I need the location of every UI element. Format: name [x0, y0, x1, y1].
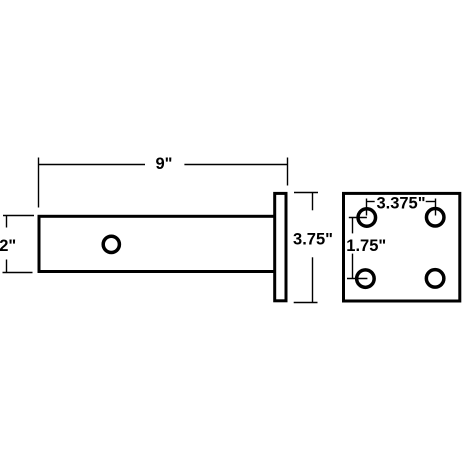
tick right (3.375") [435, 199, 437, 216]
svg-text:9": 9" [156, 155, 173, 173]
dimension line 2" [6, 216, 8, 228]
dimension line 9" [39, 164, 146, 166]
extension line right (9") [287, 158, 289, 186]
dimension line 3.375" [367, 201, 375, 203]
pin hole in tube [103, 236, 119, 252]
tick bottom (3.75") [294, 302, 318, 304]
end plate (front view) [344, 193, 460, 301]
bolt hole bottom-right [426, 270, 444, 288]
bolt hole top-left [358, 209, 376, 227]
svg-text:3.75": 3.75" [293, 230, 333, 248]
tube (side view) [39, 216, 277, 271]
flange plate (side view) [275, 193, 286, 300]
dimension line 3.75" [312, 193, 314, 211]
svg-text:3.375": 3.375" [376, 194, 425, 212]
bolt hole top-right [426, 209, 444, 227]
bolt hole bottom-left [357, 270, 375, 288]
tick top (3.75") [294, 192, 318, 194]
extension line top (2") [3, 215, 34, 217]
extension line bottom (2") [3, 272, 33, 274]
svg-text:1.75": 1.75" [346, 237, 386, 255]
dimension line 1.75" [352, 218, 354, 234]
tick top (1.75") [349, 217, 367, 219]
extension line left (9") [38, 158, 40, 208]
svg-text:2": 2" [0, 237, 16, 255]
tick left (3.375") [366, 199, 368, 216]
tick bottom (1.75") [347, 278, 367, 280]
